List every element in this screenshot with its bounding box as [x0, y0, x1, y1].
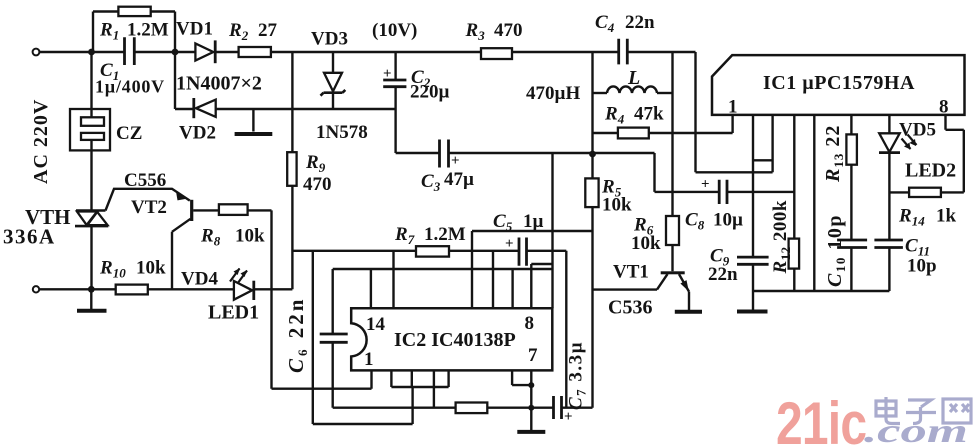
svg-text:C6 22n: C6 22n	[284, 297, 310, 373]
svg-text:L: L	[627, 67, 640, 89]
svg-text:R9: R9	[305, 152, 326, 175]
svg-text:+: +	[701, 177, 710, 193]
svg-text:7: 7	[528, 345, 538, 366]
svg-text:C3: C3	[421, 171, 441, 194]
svg-text:C5: C5	[493, 211, 513, 234]
svg-text:10k: 10k	[631, 233, 661, 254]
svg-text:470: 470	[303, 174, 332, 195]
svg-text:1µ/400V: 1µ/400V	[95, 77, 165, 97]
svg-text:C536: C536	[608, 297, 652, 319]
svg-text:LED2: LED2	[905, 160, 956, 182]
svg-text:+: +	[505, 236, 514, 252]
svg-text:LED1: LED1	[208, 302, 259, 324]
svg-text:VD2: VD2	[179, 123, 216, 144]
svg-text:C7 3.3µ: C7 3.3µ	[566, 341, 589, 410]
svg-text:10p: 10p	[907, 256, 937, 277]
svg-text:CZ: CZ	[116, 123, 142, 144]
svg-text:1.2M: 1.2M	[127, 20, 169, 41]
svg-text:C4: C4	[595, 12, 615, 35]
svg-text:220µ: 220µ	[410, 82, 450, 103]
svg-text:10µ: 10µ	[713, 210, 743, 231]
svg-text:22n: 22n	[625, 12, 655, 33]
svg-text:27: 27	[258, 20, 278, 41]
svg-text:22n: 22n	[708, 264, 738, 285]
svg-text:1: 1	[728, 97, 738, 118]
svg-text:+: +	[564, 409, 573, 425]
svg-text:C10 10p: C10 10p	[824, 214, 848, 287]
svg-text:R14: R14	[898, 206, 925, 229]
svg-text:C556: C556	[124, 170, 166, 191]
svg-text:VT2: VT2	[131, 197, 167, 218]
svg-text:470µH: 470µH	[526, 83, 580, 104]
svg-text:R3: R3	[465, 20, 486, 43]
svg-text:R8: R8	[200, 226, 221, 249]
svg-text:47k: 47k	[634, 104, 664, 125]
svg-text:VD4: VD4	[181, 269, 218, 290]
svg-text:8: 8	[939, 97, 949, 118]
svg-text:R2: R2	[228, 20, 249, 43]
svg-text:+: +	[451, 153, 460, 169]
svg-text:10k: 10k	[136, 258, 166, 279]
svg-text:1µ: 1µ	[523, 211, 544, 232]
svg-text:R12 200k: R12 200k	[770, 200, 793, 275]
svg-text:470: 470	[494, 20, 523, 41]
svg-text:VT1: VT1	[613, 262, 649, 283]
svg-text:336A: 336A	[3, 225, 56, 249]
svg-text:R13 22: R13 22	[822, 125, 846, 183]
svg-text:IC2 IC40138P: IC2 IC40138P	[394, 329, 516, 351]
svg-text:R4: R4	[604, 104, 625, 127]
svg-text:VD3: VD3	[311, 29, 348, 50]
svg-text:14: 14	[366, 314, 386, 335]
svg-text:+: +	[383, 66, 392, 82]
svg-text:AC 220V: AC 220V	[30, 99, 52, 184]
svg-text:VD1: VD1	[176, 19, 213, 40]
svg-text:10k: 10k	[235, 226, 265, 247]
svg-text:21ic: 21ic	[776, 390, 866, 446]
svg-text:8: 8	[525, 313, 535, 334]
svg-text:R1: R1	[99, 20, 119, 43]
svg-text:1.2M: 1.2M	[424, 224, 466, 245]
svg-text:R7: R7	[394, 224, 415, 247]
svg-text:.com: .com	[864, 411, 968, 446]
svg-text:1: 1	[364, 349, 374, 370]
svg-text:C8: C8	[685, 210, 705, 233]
svg-text:10k: 10k	[602, 195, 632, 216]
svg-text:R10: R10	[99, 258, 126, 281]
svg-text:47µ: 47µ	[444, 169, 474, 190]
svg-text:(10V): (10V)	[372, 20, 417, 41]
svg-text:IC1 µPC1579HA: IC1 µPC1579HA	[763, 72, 915, 94]
svg-text:VD5: VD5	[899, 120, 936, 141]
svg-text:1N578: 1N578	[316, 122, 368, 143]
svg-text:1k: 1k	[936, 206, 957, 227]
svg-text:1N4007×2: 1N4007×2	[176, 73, 262, 95]
